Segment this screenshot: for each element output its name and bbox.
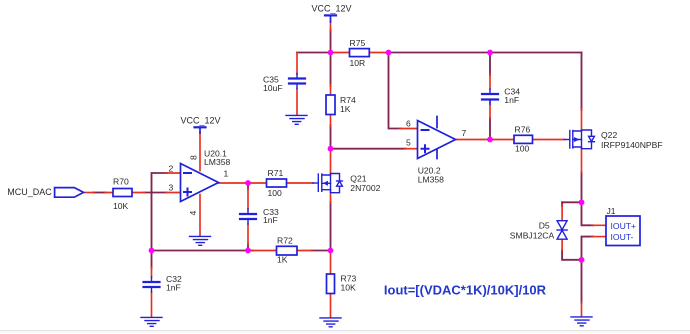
wire port to R70 [93, 192, 106, 194]
svg-text:3: 3 [169, 183, 174, 193]
port MCU_DAC [55, 188, 84, 198]
wire J1 pin2 [582, 237, 594, 260]
resistor R70 [113, 189, 132, 197]
svg-text:Q22: Q22 [601, 130, 617, 140]
svg-text:6: 6 [406, 119, 411, 129]
node pin5/R74/Q21 [328, 146, 334, 152]
node R75/pin6 [386, 50, 392, 56]
wire R74 to pin5 node [330, 125, 332, 149]
wire C33 top/bottom stubs [247, 183, 249, 189]
wire J1 pin1 [582, 202, 594, 225]
pin R71 left / right [248, 182, 313, 184]
svg-text:2N7002: 2N7002 [350, 183, 380, 193]
capacitor C34 [482, 94, 498, 100]
node feedback/C32 [149, 248, 155, 254]
wire pin2 feedback loop [152, 173, 168, 251]
svg-text:R75: R75 [350, 38, 366, 48]
op-amp U20.2 [418, 117, 456, 159]
wire Q22 drain down to D5 node [581, 172, 583, 202]
node D5 top [579, 199, 585, 205]
wire feedback to pin6 [389, 53, 402, 129]
resistor R74 [326, 95, 335, 115]
resistor R72 [277, 246, 298, 255]
wire Q22 source upper [581, 108, 583, 110]
resistor R73 [327, 274, 335, 294]
pin port MCU_DAC [84, 192, 95, 194]
svg-text:VCC_12V: VCC_12V [181, 116, 221, 126]
pin R70 left / right [105, 192, 145, 194]
diode D5 SMBJ12CA (bidirectional TVS) [557, 221, 567, 240]
svg-text:10K: 10K [341, 283, 357, 293]
pin C32 top / bottom [151, 267, 153, 317]
pin VCC top stem [330, 22, 332, 31]
node pin7/R76/C34 [487, 137, 493, 143]
svg-text:1nF: 1nF [263, 215, 278, 225]
svg-text:8: 8 [189, 155, 199, 160]
svg-text:R72: R72 [277, 236, 293, 246]
svg-text:IOUT-: IOUT- [611, 232, 634, 242]
pin Q22 drain [581, 148, 583, 173]
svg-text:100: 100 [268, 188, 283, 198]
wire D5 top branch [562, 201, 581, 203]
svg-text:10K: 10K [113, 201, 129, 211]
wire R70 to pin3 [144, 192, 167, 194]
svg-text:R70: R70 [113, 177, 129, 187]
pin J1 pin1 / pin2 [592, 225, 606, 236]
svg-text:1nF: 1nF [166, 283, 181, 293]
capacitor C33 [240, 214, 256, 219]
wire C35 branch horizontal [297, 52, 331, 54]
wire right side down to Q22 source [581, 53, 583, 111]
node VCC/R75/C35 [328, 50, 334, 56]
ground (under U20.1 pin4) [190, 236, 211, 245]
wire C34 top [489, 53, 491, 76]
resistor R75 [350, 49, 370, 57]
pin U20.1 pin4 [199, 195, 201, 237]
pin U20.2 pin6 [400, 128, 418, 130]
svg-text:10R: 10R [350, 58, 366, 68]
pin U20.2 pin7 output [456, 139, 491, 141]
svg-text:SMBJ12CA: SMBJ12CA [510, 230, 555, 240]
wire R72 right to node [311, 250, 331, 252]
svg-text:LM358: LM358 [418, 174, 444, 184]
pin D5 top / bottom [561, 205, 563, 251]
pin U20.1 pin8 [199, 133, 201, 171]
wire C34 bottom [489, 118, 491, 140]
svg-text:1nF: 1nF [504, 95, 519, 105]
svg-text:R71: R71 [268, 168, 284, 178]
connector J1 [606, 216, 640, 246]
svg-text:J1: J1 [607, 206, 616, 216]
svg-text:IRFP9140NPBF: IRFP9140NPBF [601, 140, 663, 150]
pin U20.2 pin5 [405, 148, 418, 150]
pin Q21 drain [330, 150, 332, 174]
wire VCC top to junction [330, 30, 332, 53]
power VCC_12V (above U20.1) [195, 126, 206, 128]
pin U20.1 pin1 output [219, 182, 249, 184]
pin R73 top / bottom [330, 251, 332, 318]
bottom window edge line [0, 330, 690, 331]
resistor R71 [267, 179, 287, 187]
pin Q21 source [330, 192, 332, 204]
svg-text:1K: 1K [277, 255, 288, 265]
svg-text:VCC_12V: VCC_12V [312, 3, 352, 13]
wire pin5 to Q21 drain node [331, 148, 407, 150]
svg-text:R76: R76 [515, 124, 531, 134]
svg-text:1K: 1K [340, 104, 351, 114]
svg-text:IOUT+: IOUT+ [611, 221, 637, 231]
ground (under R73) [320, 318, 341, 327]
ground (under C35) [286, 115, 307, 124]
svg-text:10uF: 10uF [263, 83, 283, 93]
svg-text:4: 4 [188, 211, 198, 216]
svg-text:MCU_DAC: MCU_DAC [7, 187, 52, 197]
svg-text:5: 5 [406, 138, 411, 148]
wire C32 top [151, 251, 153, 269]
wire VCC junction down to R74 [330, 53, 332, 87]
pin C33 top / bottom [247, 188, 249, 245]
svg-text:1: 1 [224, 169, 229, 179]
transistor Q22 IRFP9140NPBF [565, 130, 595, 149]
pin C34 top / bottom [489, 74, 491, 119]
svg-text:D5: D5 [539, 221, 550, 231]
ground (bottom right) [571, 317, 592, 326]
pin U20.1 pin2 [166, 172, 181, 174]
pin R74 top / bottom [330, 85, 332, 126]
wire bottom-right to ground [581, 260, 583, 303]
svg-text:2: 2 [169, 163, 174, 173]
wire R75 right to top-right corner [389, 52, 582, 54]
pin C35 top / bottom [296, 53, 298, 116]
wire D5 leads [561, 202, 563, 206]
node R72/R73/Q21 source [328, 248, 334, 254]
svg-text:Iout=[(VDAC*1K)/10K]/10R: Iout=[(VDAC*1K)/10K]/10R [384, 282, 547, 297]
pin bottom-right ground lead [581, 302, 583, 316]
node C33 bottom [245, 248, 251, 254]
pin R76 left / right [490, 139, 565, 141]
node D5 bottom [579, 257, 585, 263]
transistor Q21 2N7002 [313, 174, 342, 193]
capacitor C32 [144, 282, 160, 287]
wire Q21 source down [330, 202, 332, 251]
ground (under C32) [141, 317, 162, 326]
svg-text:100: 100 [515, 144, 530, 154]
node C34 top [487, 50, 493, 56]
node pin1/R71/C33 [245, 180, 251, 186]
svg-text:7: 7 [462, 128, 467, 138]
pin R75 left / right [331, 52, 389, 54]
pin Q22 source [581, 109, 583, 131]
op-amp U20.1 [181, 164, 219, 202]
svg-text:Q21: Q21 [350, 174, 366, 184]
wire bottom feedback run [152, 250, 254, 252]
pin R72 left / right [252, 250, 312, 252]
pin U20.1 pin3 [166, 192, 181, 194]
svg-text:LM358: LM358 [204, 157, 230, 167]
power VCC_12V (top) [325, 14, 336, 16]
capacitor C35 [289, 79, 305, 84]
resistor R76 [514, 135, 533, 143]
